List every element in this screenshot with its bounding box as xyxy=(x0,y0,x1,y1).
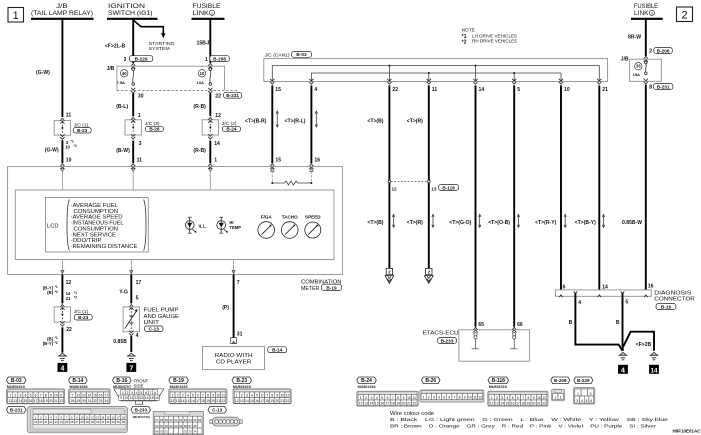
indicator lamp HI TEMP xyxy=(220,217,222,233)
wire diagnosis pin5 to ground, colour B xyxy=(622,293,624,351)
twisted pair terminator at x=389.4 xyxy=(386,268,392,274)
svg-text:12: 12 xyxy=(135,396,139,400)
svg-text:30: 30 xyxy=(91,420,95,424)
svg-text:6: 6 xyxy=(261,393,263,397)
svg-text:B-24: B-24 xyxy=(361,378,372,384)
svg-text:11: 11 xyxy=(473,395,477,399)
svg-text:5: 5 xyxy=(586,399,588,403)
svg-text:3: 3 xyxy=(590,392,592,396)
svg-text:J/B: J/B xyxy=(621,57,629,63)
svg-text:16: 16 xyxy=(155,396,159,400)
svg-text:3: 3 xyxy=(576,399,578,403)
CAN bus line B xyxy=(311,73,561,82)
svg-text:19: 19 xyxy=(270,399,274,403)
svg-text:B-231: B-231 xyxy=(657,84,670,89)
svg-text:16: 16 xyxy=(511,401,515,405)
svg-text:<T>(R): <T>(R) xyxy=(407,119,423,125)
svg-text:2: 2 xyxy=(127,391,129,395)
svg-text:7: 7 xyxy=(129,365,133,372)
svg-text:10: 10 xyxy=(407,396,411,400)
svg-text:B-16: B-16 xyxy=(116,378,127,384)
svg-text:*2: *2 xyxy=(462,39,467,45)
svg-text:B-208: B-208 xyxy=(554,378,567,383)
svg-text:5: 5 xyxy=(517,87,520,93)
junction connector J/C(2) B-24 xyxy=(202,120,218,135)
svg-text:21: 21 xyxy=(537,401,541,405)
svg-text:15: 15 xyxy=(275,87,281,93)
connector C-13 pinout xyxy=(208,407,227,414)
svg-text:14: 14 xyxy=(370,401,374,405)
svg-text:*2: *2 xyxy=(55,290,58,294)
svg-text:3: 3 xyxy=(370,396,372,400)
svg-text:4: 4 xyxy=(581,399,583,403)
branch arrow to STARTING SYSTEM xyxy=(133,20,163,34)
svg-text:4: 4 xyxy=(60,365,64,372)
svg-text:F/GA: F/GA xyxy=(261,214,273,219)
svg-text:<T>(R-Y): <T>(R-Y) xyxy=(535,220,557,226)
svg-text:10: 10 xyxy=(124,396,128,400)
svg-text:22: 22 xyxy=(542,401,546,405)
svg-text:30: 30 xyxy=(138,94,144,100)
svg-text:LCD: LCD xyxy=(47,224,59,230)
svg-text:6: 6 xyxy=(448,395,450,399)
svg-text:1: 1 xyxy=(9,393,11,397)
svg-text:MU801516: MU801516 xyxy=(358,385,376,389)
svg-text:AND GAUGE: AND GAUGE xyxy=(144,314,180,320)
connector B-231 pinout xyxy=(7,407,27,414)
svg-text:B-229: B-229 xyxy=(577,378,590,383)
svg-text:19: 19 xyxy=(396,401,400,405)
svg-text:12: 12 xyxy=(171,399,175,403)
svg-text:9: 9 xyxy=(464,395,466,399)
connector B-233 pinout xyxy=(131,407,151,414)
connector body B-14 xyxy=(69,389,111,404)
svg-text:23: 23 xyxy=(55,420,59,424)
connector B-229 pinout xyxy=(574,377,593,384)
svg-text:DIAGNOSIS: DIAGNOSIS xyxy=(654,290,691,296)
svg-text:8: 8 xyxy=(649,85,652,91)
svg-text:FUSIBLE: FUSIBLE xyxy=(634,4,658,10)
svg-text:22: 22 xyxy=(221,399,225,403)
svg-text:18: 18 xyxy=(39,399,43,403)
svg-text:29: 29 xyxy=(76,399,80,403)
meter internal wire stubs xyxy=(61,171,63,190)
svg-text:21: 21 xyxy=(602,87,608,93)
svg-text:9: 9 xyxy=(276,393,278,397)
svg-text:J/B: J/B xyxy=(56,4,67,10)
svg-text:16: 16 xyxy=(29,399,33,403)
diagnosis connector bar B-16 xyxy=(556,290,652,296)
svg-text:CD PLAYER: CD PLAYER xyxy=(216,360,252,366)
svg-text:<T>(G-O): <T>(G-O) xyxy=(449,220,471,226)
svg-text:<F>2L-B: <F>2L-B xyxy=(105,43,126,49)
svg-text:BR : Brown O : Orange GR: BR : Brown O : Orange GR : Grey R : Red … xyxy=(390,423,657,429)
svg-text:65: 65 xyxy=(478,322,484,328)
branch wire to ground 14, labelled F 2B xyxy=(623,332,654,351)
connector B-03 pinout xyxy=(7,377,27,384)
svg-text:16: 16 xyxy=(648,284,654,290)
svg-text:8: 8 xyxy=(207,393,209,397)
svg-text:LINK: LINK xyxy=(634,11,649,17)
svg-text:70: 70 xyxy=(160,430,164,434)
svg-text:B-14: B-14 xyxy=(72,378,83,384)
svg-text:1: 1 xyxy=(214,158,217,164)
svg-text:(G-W): (G-W) xyxy=(45,148,59,154)
svg-text:10: 10 xyxy=(66,158,72,164)
bus drop at pin 22 xyxy=(388,66,390,82)
connector body B-118 xyxy=(488,391,548,406)
svg-text:7: 7 xyxy=(40,393,42,397)
wire CAN pin5 to ETACS pin66, colour O-B twisted xyxy=(513,85,515,326)
svg-text:Y-G: Y-G xyxy=(119,290,128,296)
wire J/C(1) to combination meter pin 10, colour G-W xyxy=(61,140,63,163)
svg-text:<T>(O-B): <T>(O-B) xyxy=(488,220,510,226)
svg-text:7: 7 xyxy=(150,391,152,395)
bus drop at pin 14 xyxy=(475,66,477,82)
svg-text:8: 8 xyxy=(154,391,156,395)
svg-text:SYSTEM: SYSTEM xyxy=(149,46,170,51)
svg-text:<T>(B-Y): <T>(B-Y) xyxy=(575,220,597,226)
svg-text:7: 7 xyxy=(522,396,524,400)
LCD block xyxy=(46,198,149,253)
svg-text:11: 11 xyxy=(130,396,134,400)
svg-text:21: 21 xyxy=(44,420,48,424)
svg-text:B-206: B-206 xyxy=(657,48,670,53)
svg-text:8: 8 xyxy=(459,395,461,399)
svg-text:14: 14 xyxy=(88,393,92,397)
svg-text:4: 4 xyxy=(136,333,139,339)
svg-text:32: 32 xyxy=(93,399,97,403)
svg-text:40: 40 xyxy=(122,71,127,76)
svg-text:64: 64 xyxy=(189,418,193,422)
svg-text:14: 14 xyxy=(101,415,105,419)
svg-text:B-26: B-26 xyxy=(425,378,436,384)
wire ignition switch IG1 down, colour 2L-B xyxy=(132,20,134,63)
svg-text:22: 22 xyxy=(50,420,54,424)
J/B fuse box with fuses 40 and 10 xyxy=(117,66,225,90)
wire fuse10 to J/C(2), colour R-B, node 22 B-231 xyxy=(209,93,211,116)
svg-text:(B): (B) xyxy=(47,290,54,295)
svg-text:3: 3 xyxy=(501,396,503,400)
svg-text:12: 12 xyxy=(76,393,80,397)
svg-text:59: 59 xyxy=(165,418,169,422)
svg-text:12: 12 xyxy=(490,401,494,405)
connector B-19 pinout xyxy=(169,377,189,384)
svg-text:15: 15 xyxy=(275,158,281,164)
svg-text:10: 10 xyxy=(65,144,70,149)
svg-text:1: 1 xyxy=(122,391,124,395)
svg-text:22: 22 xyxy=(392,87,398,93)
svg-text:21: 21 xyxy=(54,399,58,403)
svg-text:TACHO: TACHO xyxy=(282,214,298,219)
svg-text:Wire colour code: Wire colour code xyxy=(390,411,434,417)
svg-text:2: 2 xyxy=(241,393,243,397)
wire CAN pin4 to meter pin16, colour R-L twisted xyxy=(310,85,312,163)
junction connector J/C(CAN1) B-03 box xyxy=(264,59,608,82)
connector B-208 pinout xyxy=(551,377,570,384)
svg-text:17: 17 xyxy=(34,399,38,403)
gauge TACHO xyxy=(281,222,298,239)
svg-text:9: 9 xyxy=(212,393,214,397)
svg-text:8: 8 xyxy=(397,396,399,400)
wire fusible link 4 down, colour 8R-W xyxy=(645,20,647,57)
svg-text:33: 33 xyxy=(636,64,641,69)
svg-text:1: 1 xyxy=(360,396,362,400)
svg-text:(B-L): (B-L) xyxy=(116,104,128,110)
gauge SPEED xyxy=(305,222,321,238)
bus drop at pin 11 xyxy=(428,73,430,82)
wire CAN pin21 to diagnosis pin14, colour B-Y twisted xyxy=(598,85,600,290)
svg-text:12: 12 xyxy=(235,399,239,403)
svg-text:18: 18 xyxy=(265,399,269,403)
svg-text:10: 10 xyxy=(216,393,220,397)
svg-text:64: 64 xyxy=(174,424,178,428)
svg-text:6: 6 xyxy=(563,284,566,290)
svg-text:72: 72 xyxy=(184,430,188,434)
svg-text:13: 13 xyxy=(431,186,437,191)
svg-text:15: 15 xyxy=(150,396,154,400)
svg-text:10: 10 xyxy=(200,71,205,76)
connector body B-03 xyxy=(7,389,65,404)
svg-text:B-23: B-23 xyxy=(236,378,247,384)
svg-text:B-03: B-03 xyxy=(11,378,22,384)
svg-text:B-23: B-23 xyxy=(78,315,89,320)
svg-text:3: 3 xyxy=(139,141,142,147)
svg-text:6: 6 xyxy=(35,393,37,397)
svg-text:*1: *1 xyxy=(74,291,77,295)
svg-text:34: 34 xyxy=(112,420,116,424)
svg-text:2: 2 xyxy=(681,10,687,22)
svg-text:71: 71 xyxy=(165,430,169,434)
svg-text:12: 12 xyxy=(359,401,363,405)
svg-text:20: 20 xyxy=(402,401,406,405)
svg-text:(P): (P) xyxy=(222,305,229,311)
svg-text:4: 4 xyxy=(621,367,625,374)
svg-text:SIDE: SIDE xyxy=(134,383,144,388)
svg-text:10: 10 xyxy=(81,415,85,419)
svg-text:*2: *2 xyxy=(74,296,77,300)
wire J/C(1) to ground, colour B/B-Y, pin 22 xyxy=(61,327,63,352)
svg-text:3: 3 xyxy=(182,393,184,397)
svg-text:7: 7 xyxy=(72,393,74,397)
connector body B-24 xyxy=(357,391,418,406)
svg-text:13: 13 xyxy=(82,393,86,397)
connector B-23 pinout xyxy=(232,377,252,384)
svg-text:8: 8 xyxy=(271,393,273,397)
svg-text:B-26: B-26 xyxy=(149,127,160,132)
wire fuse40 to J/C(3), colour B-L xyxy=(132,93,134,116)
svg-text:19: 19 xyxy=(34,420,38,424)
svg-text:12: 12 xyxy=(478,395,482,399)
twisted pair terminator at x=428.8 xyxy=(426,268,432,274)
svg-text:B-19: B-19 xyxy=(173,378,184,384)
svg-text:C-13: C-13 xyxy=(212,408,222,413)
svg-text:TEMP: TEMP xyxy=(229,225,241,230)
svg-text:4: 4 xyxy=(578,300,581,306)
wire fuse33 to diagnosis pin16, colour 0.85B-W, node 8 B-231 xyxy=(645,85,647,290)
wire J/C(2) to combination meter pin 1, colour R-B xyxy=(209,141,211,164)
wire CAN pin11 down, colour R twisted xyxy=(428,85,430,268)
svg-text:33: 33 xyxy=(106,420,110,424)
svg-text:15: 15 xyxy=(93,393,97,397)
svg-text:3: 3 xyxy=(124,57,127,63)
svg-text:15: 15 xyxy=(186,399,190,403)
svg-text:20: 20 xyxy=(39,420,43,424)
svg-text:1: 1 xyxy=(554,395,556,399)
svg-text:B-16: B-16 xyxy=(661,304,672,309)
svg-text:6: 6 xyxy=(387,396,389,400)
svg-text:7: 7 xyxy=(266,393,268,397)
ground 4 left xyxy=(59,353,65,356)
svg-text:68: 68 xyxy=(193,424,197,428)
svg-text:17: 17 xyxy=(117,415,121,419)
svg-text:2: 2 xyxy=(365,396,367,400)
ground 7 xyxy=(128,353,134,356)
svg-text:12: 12 xyxy=(8,399,12,403)
svg-text:20: 20 xyxy=(275,399,279,403)
svg-text:21: 21 xyxy=(66,296,71,301)
svg-text:IGNITION: IGNITION xyxy=(108,4,145,10)
svg-text:15: 15 xyxy=(375,401,379,405)
svg-text:31: 31 xyxy=(237,332,243,338)
svg-text:15B-R: 15B-R xyxy=(197,41,212,47)
svg-text:25: 25 xyxy=(65,420,69,424)
svg-text:*1: *1 xyxy=(71,140,74,144)
svg-text:1: 1 xyxy=(13,10,19,22)
svg-text:35: 35 xyxy=(117,420,121,424)
svg-text:3: 3 xyxy=(19,393,21,397)
svg-text:1: 1 xyxy=(211,12,213,16)
svg-text:UNIT: UNIT xyxy=(144,320,160,326)
svg-text:62: 62 xyxy=(165,424,169,428)
svg-text:19: 19 xyxy=(44,399,48,403)
svg-text:30: 30 xyxy=(82,399,86,403)
svg-text:·REMAINING DISTANCE: ·REMAINING DISTANCE xyxy=(71,244,138,250)
wire diagnosis pin4 to ground, colour B xyxy=(575,293,622,351)
svg-text:1: 1 xyxy=(205,57,208,63)
svg-text:15: 15 xyxy=(106,415,110,419)
svg-text:FUEL PUMP: FUEL PUMP xyxy=(144,308,179,314)
svg-text:1: 1 xyxy=(236,393,238,397)
svg-text:17: 17 xyxy=(136,280,142,286)
svg-text:B-03: B-03 xyxy=(296,52,307,57)
svg-text:11: 11 xyxy=(222,393,226,397)
page frame none; sheet number box 1 xyxy=(8,8,24,23)
svg-text:1: 1 xyxy=(491,396,493,400)
svg-text:B: B xyxy=(569,320,573,326)
svg-text:14: 14 xyxy=(19,399,23,403)
radio with CD player box B-14 xyxy=(203,346,265,369)
svg-text:11: 11 xyxy=(286,393,290,397)
svg-text:67: 67 xyxy=(189,424,193,428)
wire tail-lamp-relay to J/C(1), colour G-W xyxy=(61,20,63,117)
svg-text:(R-B): (R-B) xyxy=(193,104,206,110)
svg-text:60: 60 xyxy=(170,418,174,422)
svg-text:18: 18 xyxy=(122,415,126,419)
svg-text:10: 10 xyxy=(54,393,58,397)
connector B-16 pinout front side xyxy=(113,377,132,384)
svg-text:61: 61 xyxy=(174,418,178,422)
svg-text:14: 14 xyxy=(214,141,220,147)
svg-text:SWITCH (IG1): SWITCH (IG1) xyxy=(108,11,153,17)
svg-text:8: 8 xyxy=(45,393,47,397)
svg-text:14: 14 xyxy=(479,87,485,93)
svg-text:ETACS-ECU: ETACS-ECU xyxy=(423,331,459,337)
svg-text:62: 62 xyxy=(179,418,183,422)
svg-text:4: 4 xyxy=(438,395,440,399)
svg-text:8: 8 xyxy=(527,396,529,400)
connector B-118 pinout xyxy=(488,377,509,384)
svg-text:<T>(R): <T>(R) xyxy=(407,220,423,226)
svg-text:22: 22 xyxy=(412,401,416,405)
svg-text:13: 13 xyxy=(96,415,100,419)
meter output stubs pins 12 17 7 xyxy=(61,260,63,275)
svg-text:20: 20 xyxy=(49,399,53,403)
svg-text:65: 65 xyxy=(193,418,197,422)
svg-text:27: 27 xyxy=(75,420,79,424)
combination meter inner box xyxy=(15,190,334,260)
svg-text:4: 4 xyxy=(314,87,317,93)
gauge F/GA xyxy=(258,222,275,239)
svg-text:4: 4 xyxy=(651,12,653,16)
svg-text:17: 17 xyxy=(196,399,200,403)
svg-text:6: 6 xyxy=(145,391,147,395)
svg-text:14: 14 xyxy=(602,284,608,290)
svg-text:15A: 15A xyxy=(633,72,640,77)
svg-text:4: 4 xyxy=(506,396,508,400)
connector body B-19 xyxy=(169,389,227,404)
svg-text:26: 26 xyxy=(71,399,75,403)
svg-text:22: 22 xyxy=(59,399,63,403)
svg-text:22: 22 xyxy=(215,94,221,100)
svg-text:7: 7 xyxy=(202,393,204,397)
svg-text:8R-W: 8R-W xyxy=(628,35,641,41)
svg-text:B-14: B-14 xyxy=(272,348,283,353)
svg-text:32: 32 xyxy=(101,420,105,424)
ETACS internal termination at x=475.5 xyxy=(473,330,478,332)
bus drop at pin 5 xyxy=(513,73,515,82)
ground 4 right xyxy=(620,352,626,355)
svg-text:RH DRIVE VEHICLES: RH DRIVE VEHICLES xyxy=(472,39,517,45)
svg-text:4: 4 xyxy=(187,393,189,397)
svg-text:<T>(B): <T>(B) xyxy=(367,220,383,226)
svg-text:10: 10 xyxy=(281,393,285,397)
svg-text:60: 60 xyxy=(155,424,159,428)
svg-text:11: 11 xyxy=(137,158,143,164)
svg-text:14: 14 xyxy=(145,396,149,400)
CAN bus line A xyxy=(272,66,599,82)
svg-text:17: 17 xyxy=(260,399,264,403)
svg-text:3: 3 xyxy=(433,395,435,399)
svg-text:1: 1 xyxy=(172,393,174,397)
svg-text:10A: 10A xyxy=(197,80,204,85)
svg-text:B: B xyxy=(616,320,620,326)
resistor between meter pins 15 and 16 xyxy=(271,171,273,183)
svg-text:5: 5 xyxy=(443,395,445,399)
junction connector J/C(1) B-23 lower xyxy=(54,307,70,322)
wire meter pin7 to radio, colour P xyxy=(233,275,235,338)
svg-text:22: 22 xyxy=(286,399,290,403)
svg-text:5: 5 xyxy=(381,396,383,400)
svg-text:1: 1 xyxy=(560,395,562,399)
svg-text:4: 4 xyxy=(376,396,378,400)
svg-text:20: 20 xyxy=(532,401,536,405)
svg-text:MU801515: MU801515 xyxy=(489,385,507,389)
svg-text:METER: METER xyxy=(301,286,320,292)
svg-text:10: 10 xyxy=(468,395,472,399)
fuse 10 10A xyxy=(209,68,212,71)
svg-text:10: 10 xyxy=(564,87,570,93)
